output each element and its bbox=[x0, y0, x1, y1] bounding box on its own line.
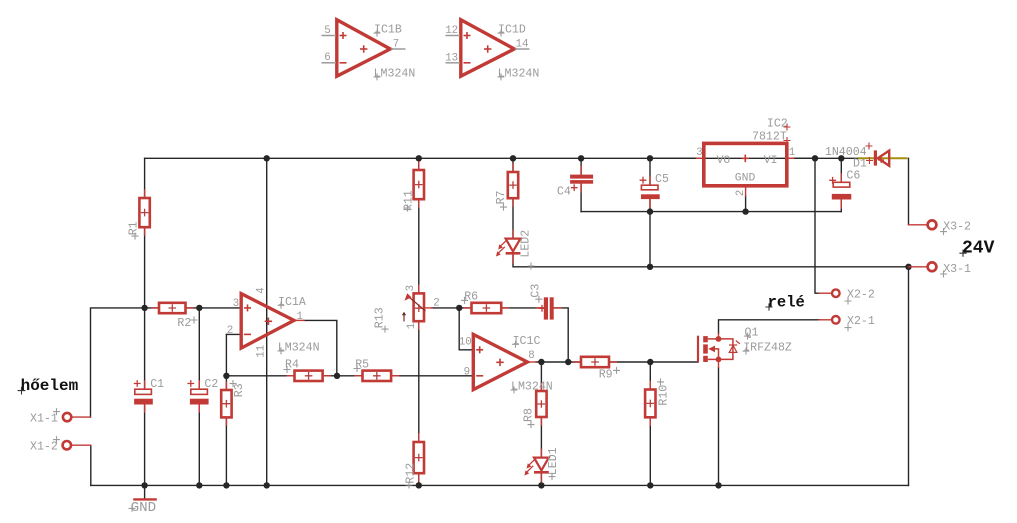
svg-text:12: 12 bbox=[445, 25, 458, 37]
svg-text:2: 2 bbox=[227, 325, 233, 337]
svg-text:hőelem: hőelem bbox=[21, 377, 79, 395]
svg-text:VO: VO bbox=[717, 155, 731, 167]
svg-text:24V: 24V bbox=[962, 239, 995, 259]
svg-text:3: 3 bbox=[233, 298, 239, 310]
svg-text:IRFZ48Z: IRFZ48Z bbox=[743, 342, 792, 355]
svg-text:LED1: LED1 bbox=[547, 447, 560, 475]
svg-text:Q1: Q1 bbox=[745, 327, 759, 340]
svg-text:LM324N: LM324N bbox=[498, 67, 540, 80]
svg-text:LM324N: LM324N bbox=[278, 341, 320, 354]
svg-text:4: 4 bbox=[255, 287, 267, 293]
svg-text:IC1C: IC1C bbox=[513, 335, 541, 348]
svg-text:13: 13 bbox=[445, 52, 458, 64]
svg-text:R2: R2 bbox=[177, 317, 191, 330]
svg-text:X2-1: X2-1 bbox=[847, 315, 875, 328]
svg-text:R6: R6 bbox=[464, 290, 478, 303]
svg-text:7812T: 7812T bbox=[752, 131, 787, 144]
svg-text:GND: GND bbox=[735, 172, 756, 184]
svg-text:14: 14 bbox=[516, 38, 529, 50]
svg-text:R7: R7 bbox=[495, 190, 508, 204]
svg-text:8: 8 bbox=[528, 350, 534, 362]
svg-text:R8: R8 bbox=[522, 408, 535, 422]
svg-text:LED2: LED2 bbox=[520, 230, 533, 258]
svg-text:3: 3 bbox=[696, 147, 702, 159]
svg-text:LM324N: LM324N bbox=[511, 380, 553, 393]
svg-text:C3: C3 bbox=[529, 284, 542, 298]
svg-text:X1-2: X1-2 bbox=[30, 440, 58, 453]
svg-text:C2: C2 bbox=[204, 378, 218, 391]
svg-text:5: 5 bbox=[324, 25, 330, 37]
svg-text:1: 1 bbox=[297, 311, 303, 323]
svg-text:relé: relé bbox=[768, 293, 805, 311]
svg-text:2: 2 bbox=[735, 190, 747, 196]
svg-text:1: 1 bbox=[789, 147, 795, 159]
svg-text:IC1B: IC1B bbox=[374, 24, 402, 37]
svg-text:3: 3 bbox=[405, 285, 417, 291]
svg-text:C1: C1 bbox=[150, 378, 164, 391]
svg-text:6: 6 bbox=[324, 52, 330, 64]
svg-text:R13: R13 bbox=[374, 307, 387, 328]
svg-text:X1-1: X1-1 bbox=[30, 412, 58, 425]
svg-text:C6: C6 bbox=[846, 170, 860, 183]
svg-text:9: 9 bbox=[464, 366, 470, 378]
svg-text:R1: R1 bbox=[128, 221, 141, 235]
svg-text:R3: R3 bbox=[233, 383, 246, 397]
svg-text:IC1D: IC1D bbox=[498, 24, 526, 37]
svg-text:IC1A: IC1A bbox=[278, 296, 306, 309]
svg-text:1: 1 bbox=[406, 323, 418, 329]
svg-text:R9: R9 bbox=[599, 369, 613, 382]
svg-text:IC2: IC2 bbox=[767, 118, 788, 131]
svg-text:11: 11 bbox=[255, 345, 267, 358]
svg-text:X2-2: X2-2 bbox=[847, 289, 875, 302]
svg-text:X3-2: X3-2 bbox=[943, 221, 971, 234]
svg-text:X3-1: X3-1 bbox=[943, 263, 971, 276]
svg-text:GND: GND bbox=[131, 500, 157, 516]
svg-text:10: 10 bbox=[459, 337, 472, 349]
svg-text:C5: C5 bbox=[655, 173, 669, 186]
svg-text:R10: R10 bbox=[657, 385, 670, 406]
svg-text:VI: VI bbox=[764, 155, 778, 167]
svg-text:LM324N: LM324N bbox=[374, 67, 416, 80]
svg-text:R12: R12 bbox=[404, 463, 417, 484]
svg-text:C4: C4 bbox=[557, 186, 571, 199]
svg-text:7: 7 bbox=[393, 38, 399, 50]
svg-text:2: 2 bbox=[433, 297, 439, 309]
